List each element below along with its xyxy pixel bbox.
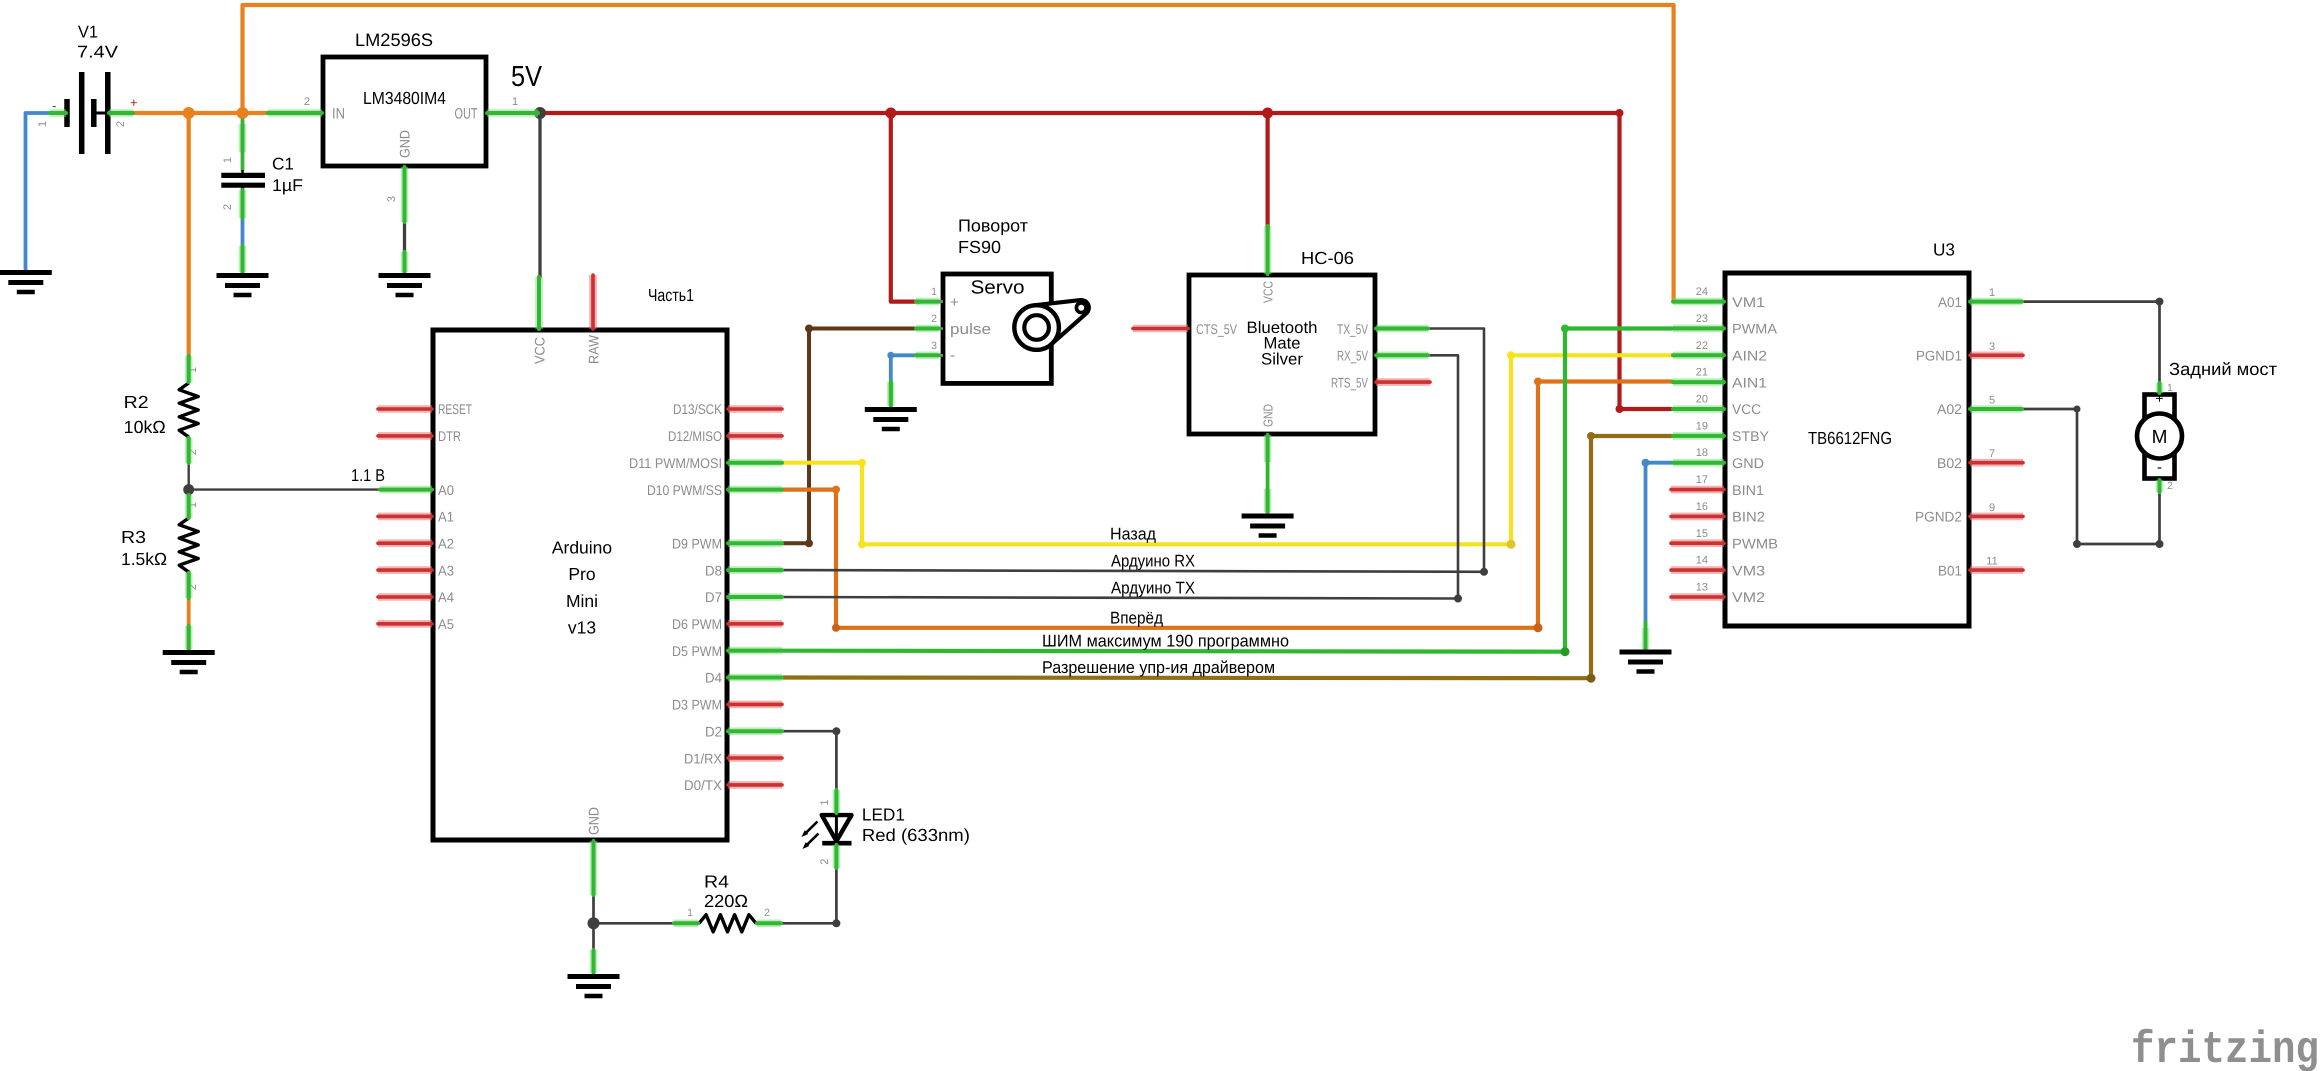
ground — [865, 410, 917, 430]
wire — [2022, 302, 2160, 386]
svg-text:Вперёд: Вперёд — [1110, 608, 1163, 627]
pin D9 PWM — [728, 539, 782, 547]
svg-text:7.4V: 7.4V — [77, 43, 119, 62]
svg-text:M: M — [2152, 427, 2168, 448]
node — [2156, 480, 2164, 492]
pin A2 — [378, 539, 432, 547]
pin D8 — [728, 566, 782, 574]
pin D10 PWM/SS — [728, 486, 782, 494]
wire — [783, 329, 1484, 572]
resistor R3 — [121, 502, 199, 590]
svg-text:14: 14 — [1696, 555, 1708, 567]
svg-text:Поворот: Поворот — [958, 216, 1028, 236]
svg-text:R3: R3 — [121, 527, 146, 547]
svg-text:D9 PWM: D9 PWM — [672, 535, 722, 551]
svg-text:+: + — [130, 95, 138, 110]
svg-text:23: 23 — [1696, 313, 1708, 325]
node — [2074, 406, 2081, 413]
node — [401, 252, 409, 272]
svg-text:2: 2 — [222, 204, 234, 210]
node — [1262, 108, 1273, 119]
pin D3 PWM — [728, 701, 782, 709]
pin VM2 — [1671, 593, 1724, 601]
net label ШИМ — [1042, 632, 1289, 651]
svg-text:1.5kΩ: 1.5kΩ — [121, 549, 167, 569]
wire — [2022, 409, 2160, 544]
svg-text:1: 1 — [222, 157, 234, 163]
node — [832, 624, 840, 632]
pin STBY — [1673, 432, 1724, 440]
ground — [217, 276, 269, 296]
svg-text:2: 2 — [2167, 480, 2173, 492]
pin A1 — [378, 513, 432, 521]
wire — [241, 188, 245, 273]
svg-text:D13/SCK: D13/SCK — [673, 401, 723, 417]
node — [401, 167, 409, 222]
svg-text:D2: D2 — [705, 723, 722, 739]
svg-text:C1: C1 — [272, 155, 294, 174]
svg-text:A2: A2 — [438, 535, 454, 551]
svg-text:RX_5V: RX_5V — [1337, 348, 1368, 364]
svg-text:11: 11 — [1986, 556, 1997, 568]
node — [885, 108, 896, 119]
node — [183, 484, 194, 495]
pin AIN2 — [1673, 351, 1724, 359]
svg-text:D8: D8 — [705, 562, 722, 578]
ground — [1620, 652, 1672, 672]
pin GND — [590, 841, 598, 895]
node — [805, 539, 813, 547]
node — [185, 516, 193, 518]
svg-text:2: 2 — [931, 313, 937, 325]
svg-text:PWMB: PWMB — [1732, 535, 1778, 551]
pin PWMB — [1671, 539, 1724, 547]
svg-text:v13: v13 — [568, 618, 596, 638]
wire — [540, 113, 1672, 409]
pin CTS_5V — [1133, 325, 1188, 333]
svg-text:D0/TX: D0/TX — [684, 777, 723, 793]
svg-text:A01: A01 — [1938, 294, 1962, 310]
node — [833, 845, 841, 868]
node — [239, 246, 247, 272]
pin A0 — [380, 486, 432, 494]
svg-text:fritzing: fritzing — [2131, 1025, 2319, 1071]
svg-text:STBY: STBY — [1732, 428, 1770, 444]
svg-text:22: 22 — [1696, 340, 1708, 352]
node — [1642, 628, 1650, 649]
pin D0/TX — [728, 781, 782, 789]
node — [757, 919, 781, 927]
pin VCC — [1673, 405, 1724, 413]
net label Ардуино RX — [1111, 551, 1195, 570]
pin PGND2 — [1970, 513, 2023, 521]
pin RTS_5V — [1376, 378, 1430, 386]
svg-text:10kΩ: 10kΩ — [124, 417, 166, 437]
node — [239, 124, 247, 152]
svg-text:D10 PWM/SS: D10 PWM/SS — [647, 482, 722, 498]
svg-text:1: 1 — [1989, 287, 1995, 299]
svg-text:7: 7 — [1989, 448, 1995, 460]
svg-text:AIN1: AIN1 — [1732, 374, 1767, 390]
svg-text:Разрешение упр-ия драйвером: Разрешение упр-ия драйвером — [1042, 658, 1275, 677]
svg-text:RAW: RAW — [586, 334, 602, 364]
wire — [189, 437, 381, 518]
svg-text:V1: V1 — [78, 23, 98, 42]
pin D7 — [728, 593, 782, 601]
node — [2156, 298, 2164, 306]
svg-text:PWMA: PWMA — [1732, 321, 1778, 337]
svg-text:Часть1: Часть1 — [648, 285, 694, 305]
svg-text:AIN2: AIN2 — [1732, 348, 1767, 364]
pin BIN2 — [1671, 513, 1724, 521]
svg-text:RTS_5V: RTS_5V — [1331, 374, 1368, 390]
node — [185, 356, 193, 382]
pin A3 — [378, 566, 432, 574]
svg-text:A02: A02 — [1937, 401, 1962, 417]
svg-text:D7: D7 — [705, 589, 722, 605]
svg-text:RESET: RESET — [438, 401, 472, 417]
pin D4 — [728, 674, 782, 682]
net 5V — [511, 61, 543, 93]
svg-text:Pro: Pro — [568, 564, 595, 584]
pin B01 — [1970, 566, 2023, 574]
wire — [243, 5, 1674, 302]
wire — [1644, 622, 1648, 650]
svg-text:VM3: VM3 — [1732, 562, 1765, 578]
node — [239, 190, 247, 218]
node — [590, 950, 598, 973]
ground — [163, 653, 215, 673]
svg-text:1.1 В: 1.1 В — [351, 466, 385, 485]
node — [1534, 378, 1542, 386]
svg-text:LM3480IM4: LM3480IM4 — [363, 88, 446, 108]
servo horn icon — [1014, 300, 1089, 350]
node — [887, 382, 895, 406]
wire — [783, 382, 1672, 628]
node — [268, 109, 322, 117]
svg-text:Red (633nm): Red (633nm) — [862, 825, 970, 845]
node — [2156, 540, 2164, 548]
node — [185, 626, 193, 649]
svg-text:A3: A3 — [438, 562, 454, 578]
pin RESET — [378, 405, 432, 413]
LED LED1 Red (633nm) — [802, 799, 970, 864]
wire — [539, 113, 540, 300]
node — [1264, 489, 1272, 512]
node — [1480, 568, 1488, 576]
pin A5 — [378, 620, 432, 628]
capacitor C1 — [221, 155, 303, 211]
net label Разрешение — [1042, 658, 1275, 677]
svg-text:15: 15 — [1696, 528, 1708, 540]
ground — [1242, 516, 1294, 536]
wire — [891, 355, 917, 406]
pin AIN1 — [1673, 378, 1724, 386]
net label Назад — [1110, 525, 1156, 544]
wire — [594, 922, 700, 925]
svg-text:Задний мост: Задний мост — [2169, 359, 2277, 379]
wire — [783, 355, 1458, 598]
pin A02 — [1970, 405, 2022, 413]
regulator LM3480IM4 — [304, 30, 518, 202]
node — [2156, 383, 2164, 393]
svg-text:VCC: VCC — [532, 337, 548, 364]
svg-text:3: 3 — [931, 340, 937, 352]
pin TX_5V — [1376, 325, 1428, 333]
svg-text:Silver: Silver — [1261, 350, 1304, 368]
svg-text:R2: R2 — [124, 392, 149, 412]
svg-text:D12/MISO: D12/MISO — [668, 428, 722, 444]
svg-text:BIN2: BIN2 — [1732, 509, 1765, 525]
node — [858, 459, 866, 467]
node — [1507, 540, 1516, 549]
svg-text:+: + — [950, 294, 959, 311]
svg-text:D3 PWM: D3 PWM — [672, 697, 722, 713]
svg-text:GND: GND — [586, 807, 602, 835]
svg-text:Ардуино RX: Ардуино RX — [1111, 551, 1195, 570]
svg-text:DTR: DTR — [438, 428, 461, 444]
svg-text:1: 1 — [37, 121, 49, 127]
node — [534, 107, 546, 119]
wire — [1266, 434, 1270, 513]
svg-text:TX_5V: TX_5V — [1337, 321, 1368, 337]
node — [109, 109, 133, 117]
svg-text:3: 3 — [386, 196, 398, 202]
wire — [241, 120, 245, 170]
pin VCC — [1264, 226, 1272, 274]
wire — [403, 166, 406, 273]
svg-text:Ардуино TX: Ардуино TX — [1111, 579, 1195, 598]
svg-text:VM2: VM2 — [1732, 589, 1765, 605]
svg-text:D1/RX: D1/RX — [684, 750, 723, 766]
svg-text:1µF: 1µF — [272, 176, 303, 195]
svg-text:HC-06: HC-06 — [1301, 248, 1354, 268]
svg-text:1: 1 — [512, 96, 518, 108]
svg-text:GND: GND — [397, 130, 413, 158]
svg-text:17: 17 — [1696, 474, 1708, 486]
node — [832, 919, 840, 927]
wire — [782, 868, 836, 923]
svg-text:1: 1 — [687, 907, 693, 919]
svg-text:24: 24 — [1696, 286, 1708, 298]
svg-text:19: 19 — [1696, 420, 1708, 432]
pin PGND1 — [1970, 351, 2023, 359]
node — [1561, 647, 1570, 656]
svg-text:2: 2 — [764, 907, 770, 919]
net 1.1 B — [351, 466, 385, 485]
pin B02 — [1970, 459, 2023, 467]
node — [1642, 459, 1650, 467]
svg-text:U3: U3 — [1933, 240, 1955, 260]
node — [183, 107, 195, 119]
node — [674, 919, 698, 927]
svg-text:LED1: LED1 — [862, 804, 905, 824]
pin A01 — [1970, 298, 2022, 306]
svg-text:5: 5 — [1989, 395, 1995, 407]
resistor R4 — [687, 872, 770, 932]
pin VM1 — [1673, 298, 1724, 306]
node — [832, 486, 840, 494]
pin GND — [1673, 459, 1724, 467]
pin D12/MISO — [728, 432, 782, 440]
pin RAW — [589, 275, 597, 329]
svg-text:2: 2 — [115, 121, 127, 127]
svg-text:B01: B01 — [1938, 562, 1962, 578]
pin D2 — [728, 727, 782, 735]
pin D13/SCK — [728, 405, 782, 413]
net label Вперёд — [1110, 608, 1163, 627]
svg-text:-: - — [2157, 459, 2162, 476]
pin VM3 — [1671, 566, 1724, 574]
pin GND — [1264, 435, 1272, 462]
wire — [187, 113, 191, 360]
svg-text:A1: A1 — [438, 509, 454, 525]
svg-text:D5 PWM: D5 PWM — [672, 643, 722, 659]
svg-text:GND: GND — [1732, 455, 1764, 471]
wire — [26, 113, 61, 270]
svg-text:GND: GND — [1261, 404, 1276, 427]
node — [50, 109, 66, 117]
node — [887, 352, 894, 359]
svg-text:Servo: Servo — [971, 278, 1025, 299]
wire — [783, 436, 1672, 678]
wire — [891, 113, 920, 302]
wire — [592, 895, 595, 973]
wire — [187, 572, 191, 649]
pin D5 PWM — [728, 647, 782, 655]
servo FS90 — [917, 216, 1051, 384]
pin D11 PWM/MOSI — [728, 459, 782, 467]
svg-text:220Ω: 220Ω — [704, 891, 748, 911]
svg-text:A0: A0 — [438, 482, 454, 498]
node — [858, 540, 866, 548]
svg-text:Назад: Назад — [1110, 525, 1156, 544]
svg-text:pulse: pulse — [950, 321, 991, 338]
MCU Arduino Pro Mini — [433, 285, 727, 840]
node — [185, 495, 193, 516]
node — [916, 325, 939, 333]
motor M (Задний мост) — [2137, 359, 2277, 492]
svg-text:A4: A4 — [438, 589, 454, 605]
pin A4 — [378, 593, 432, 601]
node — [805, 325, 813, 333]
pin BIN1 — [1671, 486, 1724, 494]
wire — [120, 111, 320, 115]
resistor R2 — [124, 367, 199, 455]
fritzing watermark — [2131, 1025, 2319, 1071]
svg-text:1: 1 — [2167, 382, 2173, 394]
node — [1616, 109, 1624, 117]
node — [2073, 540, 2081, 548]
module HC-06 Bluetooth Mate Silver — [1189, 248, 1375, 434]
node — [185, 438, 193, 463]
svg-text:Mini: Mini — [566, 591, 598, 611]
pin VCC — [535, 277, 543, 329]
svg-text:Arduino: Arduino — [552, 538, 612, 558]
svg-text:TB6612FNG: TB6612FNG — [1808, 428, 1892, 448]
pin DTR — [378, 432, 432, 440]
svg-text:21: 21 — [1696, 367, 1708, 379]
svg-text:3: 3 — [1989, 341, 1995, 353]
net label Ардуино TX — [1111, 579, 1195, 598]
node — [588, 917, 600, 929]
svg-text:LM2596S: LM2596S — [355, 30, 433, 50]
svg-text:9: 9 — [1989, 502, 1995, 514]
wire — [783, 329, 1672, 652]
ground — [379, 276, 431, 296]
svg-text:OUT: OUT — [455, 106, 478, 123]
svg-text:13: 13 — [1696, 581, 1708, 593]
svg-text:D6 PWM: D6 PWM — [672, 616, 722, 632]
driver U3 TB6612FNG — [1696, 240, 1998, 627]
svg-text:CTS_5V: CTS_5V — [1196, 321, 1238, 337]
svg-text:VM1: VM1 — [1732, 294, 1765, 310]
wire — [1265, 113, 1269, 232]
wire — [783, 731, 836, 790]
svg-text:VCC: VCC — [1261, 281, 1276, 303]
svg-text:5V: 5V — [511, 61, 543, 93]
svg-text:IN: IN — [332, 106, 345, 123]
svg-text:D4: D4 — [705, 670, 722, 686]
node — [1454, 595, 1462, 603]
svg-text:D11 PWM/MOSI: D11 PWM/MOSI — [629, 455, 722, 471]
node — [832, 727, 840, 735]
svg-text:2: 2 — [819, 859, 831, 865]
node — [1587, 674, 1596, 683]
svg-text:18: 18 — [1696, 447, 1708, 459]
wire — [783, 355, 1672, 544]
svg-text:A5: A5 — [438, 616, 454, 632]
node — [916, 298, 939, 306]
svg-text:VCC: VCC — [1732, 401, 1761, 417]
wire — [783, 329, 920, 544]
battery V1 — [37, 23, 138, 155]
pin D1/RX — [728, 754, 782, 762]
svg-text:FS90: FS90 — [958, 237, 1001, 257]
node — [237, 107, 249, 119]
node — [185, 573, 193, 598]
svg-text:B02: B02 — [1937, 455, 1962, 471]
node — [1507, 351, 1515, 359]
node — [1534, 623, 1543, 632]
node — [1616, 405, 1624, 413]
ground — [568, 977, 620, 997]
node — [1587, 432, 1595, 440]
ground — [0, 273, 52, 293]
svg-text:16: 16 — [1696, 501, 1708, 513]
svg-text:1: 1 — [931, 286, 937, 298]
wire — [1646, 463, 1673, 626]
node — [833, 790, 841, 813]
node — [916, 351, 939, 359]
svg-text:2: 2 — [304, 96, 310, 108]
pin D6 PWM — [728, 620, 782, 628]
svg-text:R4: R4 — [704, 872, 729, 892]
svg-text:PGND1: PGND1 — [1916, 348, 1962, 364]
node — [487, 109, 538, 117]
svg-text:20: 20 — [1696, 394, 1708, 406]
svg-text:ШИМ максимум 190 программно: ШИМ максимум 190 программно — [1042, 632, 1289, 651]
pin RX_5V — [1376, 351, 1428, 359]
svg-text:BIN1: BIN1 — [1732, 482, 1764, 498]
node — [1561, 325, 1569, 333]
pin PWMA — [1673, 325, 1724, 333]
svg-text:1: 1 — [819, 799, 831, 805]
svg-text:-: - — [950, 347, 955, 364]
svg-text:PGND2: PGND2 — [1915, 509, 1962, 525]
